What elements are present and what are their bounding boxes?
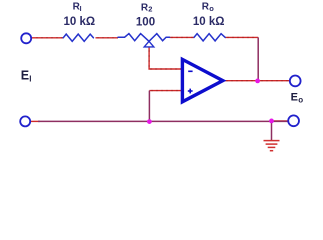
svg-text:10 kΩ: 10 kΩ — [193, 16, 225, 28]
svg-text:o: o — [209, 4, 214, 13]
svg-text:E: E — [21, 69, 29, 83]
svg-text:2: 2 — [148, 5, 152, 14]
svg-text:10 kΩ: 10 kΩ — [63, 16, 95, 28]
svg-text:E: E — [291, 91, 298, 103]
svg-text:I: I — [29, 75, 31, 84]
svg-text:I: I — [80, 6, 82, 13]
svg-text:o: o — [298, 95, 303, 104]
svg-text:100: 100 — [136, 16, 155, 28]
